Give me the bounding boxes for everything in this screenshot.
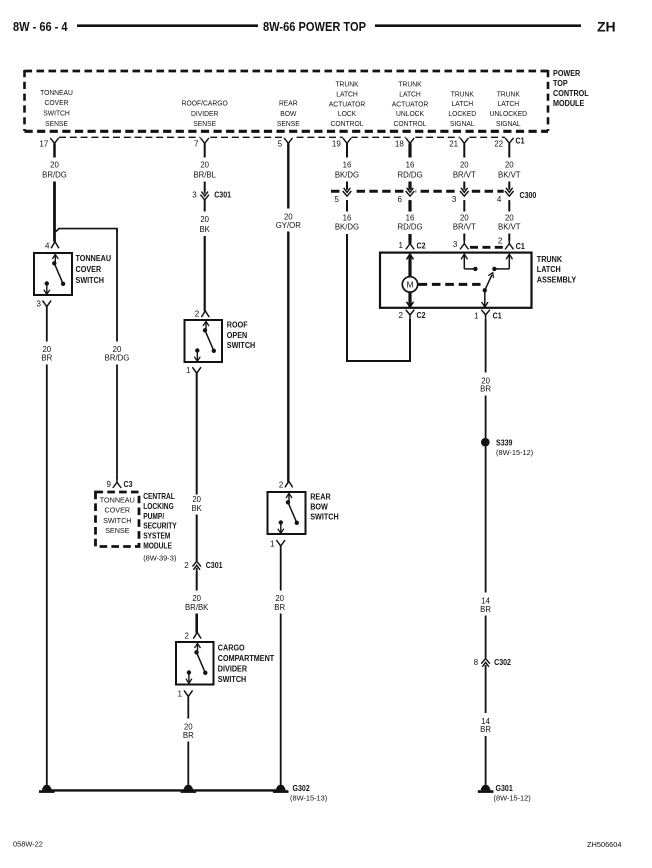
wire 20 BK continues to C301 pin 2 [196,515,198,562]
wire stub from pin (BR/VT) [463,143,465,157]
module pin 21 connector (C1) [460,134,469,141]
wire stub from pin (BK/DG) [346,143,348,157]
svg-text:8W - 66 - 4: 8W - 66 - 4 [13,19,68,34]
svg-text:20: 20 [50,161,59,170]
wire 20 BR continues to ground bus [46,365,48,786]
roof open switch internals [205,321,207,330]
svg-text:RD/DG: RD/DG [397,171,422,180]
svg-text:SWITCH: SWITCH [310,512,339,522]
svg-text:C2: C2 [417,311,426,321]
svg-text:ZH: ZH [597,19,616,35]
svg-text:2: 2 [185,632,190,641]
svg-text:(8W-15-12): (8W-15-12) [496,448,533,457]
svg-text:C301: C301 [214,190,231,200]
svg-text:COVER: COVER [45,99,69,107]
svg-text:1: 1 [186,366,191,375]
svg-text:SWITCH: SWITCH [103,516,131,525]
latch switch contact A wire [464,268,475,270]
svg-text:COVER: COVER [105,506,131,515]
tonneau cover switch box [34,253,72,295]
module pin 18 connector (C1) [406,134,415,141]
svg-text:SWITCH: SWITCH [76,276,105,286]
svg-text:BR/BK: BR/BK [185,603,209,612]
wire stub from pin 5 (GY/OR) [287,143,289,208]
svg-text:BK/DG: BK/DG [335,171,359,180]
svg-text:3: 3 [452,195,457,204]
svg-text:LATCH: LATCH [537,265,561,275]
tonneau cover switch internals (momentary contacts) [54,254,56,263]
pin 4 connector of tonneau cover switch [51,242,59,249]
cargo compartment divider switch internals [197,643,199,652]
svg-text:G302: G302 [293,784,310,794]
svg-text:BR/VT: BR/VT [453,171,476,180]
svg-text:20: 20 [200,215,209,224]
pin 2 connector of roof open switch [201,311,209,317]
svg-text:5: 5 [335,195,340,204]
motor return wire with down arrow to C2-2 [408,292,411,307]
svg-text:3: 3 [37,299,42,308]
svg-text:BK: BK [199,225,210,234]
wire corner to C2 pin 2 (horizontal) [346,360,410,362]
inline connector C302 pin 8 [481,659,490,664]
connector C1 pin 1 below box [481,310,490,315]
svg-text:2: 2 [184,561,189,570]
svg-text:PUMP/: PUMP/ [143,511,164,521]
svg-text:2: 2 [399,311,404,320]
wire stub above C1 pin 3 [463,234,465,241]
header rule left [77,24,258,27]
svg-text:(8W-39-3): (8W-39-3) [143,554,176,563]
wire stub above C1 pin 2 [508,234,510,241]
wire stub from pin (BR/DG) [53,143,56,157]
svg-text:18: 18 [395,140,404,149]
svg-text:COVER: COVER [76,264,102,274]
svg-text:058W-22: 058W-22 [13,840,43,849]
wire stub below C300 (BK/DG) [346,200,348,211]
wire C2 pin 2 vertical [409,319,411,362]
svg-text:OPEN: OPEN [227,330,248,340]
inline connector C300 pin 6 [404,185,415,203]
latch switch blade with arrow [485,275,492,291]
svg-text:BK/VT: BK/VT [498,223,521,232]
latch switch feed from C1-3 (up arrow) [463,254,465,269]
svg-text:TONNEAU: TONNEAU [40,88,73,96]
dashed link between C1 pins 3 and 2 [470,246,504,249]
wire 20 BR rear bow switch to ground [280,546,282,591]
svg-text:SENSE: SENSE [105,526,130,535]
wire 14 BR to connector C302 [485,616,487,659]
svg-text:SWITCH: SWITCH [227,341,256,351]
wire stub below C300 (BR/VT) [463,200,465,211]
svg-text:CARGO: CARGO [218,643,245,653]
latch switch contact B wire [494,268,509,270]
svg-text:ROOF/CARGO: ROOF/CARGO [182,99,228,107]
module box: POWER TOP CONTROL MODULE dashed outline [25,70,549,73]
wire branch vertical to connector C3 [116,229,118,342]
svg-text:SIGNAL: SIGNAL [450,120,475,128]
svg-text:SENSE: SENSE [277,120,300,128]
svg-text:BOW: BOW [310,502,328,512]
svg-text:C302: C302 [494,657,511,667]
svg-text:CONTROL: CONTROL [331,120,364,128]
svg-text:S339: S339 [496,438,513,448]
svg-text:TRUNK: TRUNK [497,90,520,98]
svg-text:BK: BK [191,504,202,513]
svg-text:SWITCH: SWITCH [218,674,247,684]
svg-text:3: 3 [192,191,197,200]
svg-text:BK/VT: BK/VT [498,171,521,180]
svg-text:DIVIDER: DIVIDER [218,664,248,674]
wire stub from pin (BR/BL) [204,143,206,157]
ground G301 symbol [481,785,491,791]
svg-text:20: 20 [460,214,469,223]
wire 20 BR continues to ground bus [280,614,282,786]
pin 2 connector of cargo compartment divider switch [193,632,201,638]
svg-text:MODULE: MODULE [553,99,584,109]
module pin 7 connector (C1) [200,134,209,141]
module pin 19 connector (C1) [343,134,352,141]
svg-text:TRUNK: TRUNK [335,80,358,88]
svg-text:SYSTEM: SYSTEM [143,531,170,541]
ground G302 symbol (left, tonneau switch) [42,785,52,791]
rear bow switch internals [288,493,290,502]
svg-text:LOCKING: LOCKING [143,501,174,511]
svg-text:UNLOCK: UNLOCK [396,110,424,118]
connector C1 bus line (dashed) [59,136,511,138]
svg-text:16: 16 [406,161,415,170]
svg-text:LATCH: LATCH [399,90,421,98]
svg-text:BR/BL: BR/BL [193,171,216,180]
svg-text:POWER: POWER [553,68,581,78]
svg-text:20: 20 [200,161,209,170]
svg-text:2: 2 [279,480,284,489]
wire stub from pin (RD/DG) [408,143,411,157]
svg-text:BR: BR [183,731,194,740]
svg-text:1: 1 [178,690,183,699]
svg-text:CONTROL: CONTROL [394,120,427,128]
svg-text:MODULE: MODULE [143,541,172,551]
svg-text:1: 1 [399,241,404,250]
svg-text:TONNEAU: TONNEAU [100,495,135,504]
svg-text:LATCH: LATCH [497,100,519,108]
svg-text:C301: C301 [206,560,223,570]
svg-text:16: 16 [406,214,415,223]
svg-text:UNLOCKED: UNLOCKED [490,110,527,118]
svg-text:SENSE: SENSE [45,120,68,128]
pin 1 connector of cargo divider switch [184,690,193,696]
latch switch common wire with down arrow to C1-1 [484,290,486,307]
cargo compartment divider switch box [176,642,214,685]
svg-text:CENTRAL: CENTRAL [143,491,175,501]
svg-text:CONTROL: CONTROL [553,89,589,99]
splice S339 [481,438,490,447]
svg-text:BR: BR [480,385,491,394]
trunk latch assembly box [380,253,532,308]
svg-text:8: 8 [474,658,479,667]
inline connector C300 pin 5 [341,185,352,203]
wire stub from pin (BK/VT) [508,143,510,157]
svg-text:2: 2 [195,309,200,318]
pin 1 connector of rear bow switch [276,540,285,546]
module pin 5 connector (C1) [284,134,293,141]
wire 20 BK below C301 [204,200,206,211]
svg-text:(8W-15-13): (8W-15-13) [290,794,327,803]
svg-text:BR/DG: BR/DG [42,171,67,180]
svg-text:LOCK: LOCK [338,110,357,118]
svg-text:C300: C300 [520,190,537,200]
svg-text:20: 20 [460,161,469,170]
module box bottom edge (thick dashed) [25,130,549,133]
svg-text:GY/OR: GY/OR [276,221,301,230]
central locking module dashed box [96,492,140,547]
svg-text:TONNEAU: TONNEAU [76,253,112,263]
svg-text:20: 20 [505,161,514,170]
svg-text:16: 16 [343,214,352,223]
wire 14 BR below splice [485,446,487,592]
motor M1 (trunk latch motor) [402,277,417,292]
module pin 22 connector (C1) [505,134,514,141]
svg-text:LOCKED: LOCKED [448,110,476,118]
svg-text:REAR: REAR [310,492,331,502]
svg-text:LATCH: LATCH [336,90,358,98]
svg-text:SECURITY: SECURITY [143,521,177,531]
svg-text:BOW: BOW [280,109,296,117]
rear bow switch box [268,492,306,534]
svg-text:ASSEMBLY: ASSEMBLY [537,275,577,285]
svg-text:REAR: REAR [279,99,298,107]
connector C1 pin 2 (lambda) [508,240,510,244]
svg-text:SIGNAL: SIGNAL [496,120,521,128]
wire 16 BK/DG down to motor return [346,234,348,361]
inline connector C301 pin 2 [192,561,201,566]
svg-text:G301: G301 [496,784,514,794]
ground G302 symbol (right, rear bow switch) [276,785,286,791]
svg-text:17: 17 [39,140,48,149]
svg-text:7: 7 [194,140,199,149]
wire 14 BR to ground G301 [485,736,487,785]
svg-text:22: 22 [494,140,503,149]
svg-text:DIVIDER: DIVIDER [191,109,218,117]
wire 20 BK roof switch to C301 [196,373,198,494]
svg-text:BR: BR [480,725,491,734]
pin 2 connector of rear bow switch [285,481,293,487]
module pin 17 connector (C1) [50,134,59,141]
svg-text:BR: BR [274,603,285,612]
wire stub below C300 (BK/VT) [508,200,510,211]
connector C3 pin 9 [116,478,118,482]
wire 20 BR/BK down to cargo divider switch [195,614,198,633]
wire 20 BR/DG branch down to C3 [116,365,118,480]
wire 20 BR to splice S339 [485,396,487,439]
svg-text:1: 1 [474,311,479,320]
pin 1 connector of roof open switch [192,367,201,373]
svg-text:ZH506604: ZH506604 [587,840,622,849]
svg-text:M: M [406,280,413,290]
svg-text:ROOF: ROOF [227,320,248,330]
svg-text:4: 4 [497,195,502,204]
svg-text:C3: C3 [124,479,134,489]
ground bus wire G302 [47,789,281,791]
svg-text:1: 1 [270,539,275,548]
svg-text:3: 3 [453,240,458,249]
wire branch to C3 (horizontal) [56,229,118,232]
svg-text:SWITCH: SWITCH [43,109,70,117]
mechanical link motor to latch switch (dashed) [419,283,481,286]
svg-text:4: 4 [45,241,50,250]
roof open switch box [185,320,223,362]
connector C2 pin 2 below box [406,310,415,315]
svg-text:TRUNK: TRUNK [398,80,421,88]
svg-text:BR/DG: BR/DG [105,354,130,363]
svg-text:19: 19 [332,140,341,149]
wire 20 BR cargo switch to ground [187,696,189,718]
svg-text:ACTUATOR: ACTUATOR [392,100,428,108]
latch switch feed from C1-2 (up arrow) [508,254,510,269]
wire BR/DG down to tonneau switch [53,182,56,242]
wire 16 RD/DG to connector C2 pin 1 [408,234,411,241]
svg-text:C1: C1 [516,241,526,251]
svg-text:RD/DG: RD/DG [397,223,422,232]
svg-text:C2: C2 [417,241,426,251]
svg-text:TOP: TOP [553,78,568,88]
svg-text:TRUNK: TRUNK [537,254,563,264]
pin 3 connector of tonneau cover switch [43,301,52,307]
connector C300 bus line (dashed) [331,190,509,193]
svg-text:BK/DG: BK/DG [335,223,359,232]
motor feed wire with up arrow (C2-1 into box) [408,254,411,277]
wire 20 BR from C1-1 [485,319,487,373]
wire 20 BR tonneau switch to ground [46,307,48,342]
svg-text:SENSE: SENSE [193,120,216,128]
svg-text:16: 16 [343,161,352,170]
wire 20 BR continues to ground bus [187,742,189,786]
inline connector C301 pin 3 [204,189,206,193]
svg-text:LATCH: LATCH [451,100,473,108]
inline connector C300 pin 3 [459,185,470,203]
ground G302 symbol (center, cargo switch) [184,785,194,791]
connector C1 pin 3 (lambda) [463,240,465,244]
svg-text:6: 6 [398,195,403,204]
wire 20 GY/OR down to rear bow switch [287,232,289,482]
svg-text:5: 5 [278,140,283,149]
svg-text:(8W-15-12): (8W-15-12) [494,794,531,803]
svg-text:COMPARTMENT: COMPARTMENT [218,653,275,663]
svg-text:9: 9 [107,480,112,489]
svg-text:BR: BR [41,354,52,363]
wire 14 BR below C302 [485,669,487,714]
svg-text:20: 20 [192,495,201,504]
inline connector C300 pin 4 [504,185,515,203]
svg-text:BR/VT: BR/VT [453,223,476,232]
wire 20 BR/BK below C301 [196,571,198,590]
svg-text:TRUNK: TRUNK [451,90,474,98]
svg-text:8W-66 POWER TOP: 8W-66 POWER TOP [263,20,366,34]
svg-text:C1: C1 [516,136,526,146]
header rule right [375,24,581,27]
wire 20 BK down to roof open switch [204,236,206,311]
svg-text:20: 20 [505,214,514,223]
svg-text:C1: C1 [493,311,503,321]
wire BR/BL to connector C301 [204,182,206,191]
connector C2 pin 1 (lambda) [409,240,412,244]
svg-text:21: 21 [449,140,458,149]
svg-text:ACTUATOR: ACTUATOR [329,100,365,108]
svg-text:2: 2 [498,237,503,246]
svg-text:BR: BR [480,605,491,614]
wire stub below C300 (RD/DG) [408,200,411,211]
